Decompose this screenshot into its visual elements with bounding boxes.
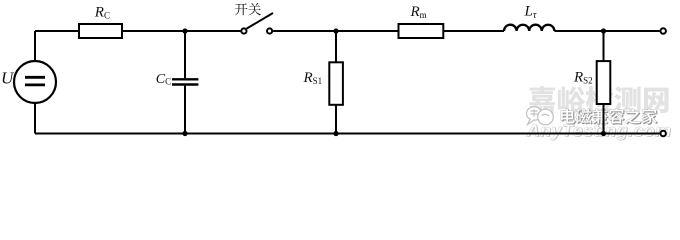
wire bottom	[35, 133, 660, 135]
capacitor C_C	[172, 79, 198, 84]
wire R_S1 branch	[335, 31, 337, 134]
switch lever	[247, 13, 273, 29]
svg-text:AnyTesting.com: AnyTesting.com	[526, 120, 672, 140]
resistor R_m	[399, 24, 444, 38]
watermark logo	[527, 107, 554, 125]
watermark text 电磁兼容之家	[561, 108, 657, 124]
wire capacitor branch	[184, 31, 186, 134]
resistor R_S2	[597, 61, 611, 104]
switch contact left	[241, 28, 246, 33]
voltage source U	[14, 61, 56, 103]
terminal bottom right	[661, 131, 666, 136]
label 开关	[235, 3, 261, 15]
wire top: inductor to output	[555, 30, 660, 32]
switch contact right	[267, 28, 272, 33]
junction RS1 top	[333, 28, 338, 33]
resistor R_S1	[329, 62, 343, 105]
wire top: source to R_C	[35, 30, 79, 32]
junction RS2 bottom	[601, 131, 606, 136]
junction cap top	[182, 28, 187, 33]
wire top: R_m to inductor	[443, 30, 504, 32]
resistor R_C	[79, 24, 122, 38]
svg-text:U: U	[1, 69, 15, 88]
watermark text 嘉峪检测网	[529, 86, 669, 114]
junction RS1 bottom	[333, 131, 338, 136]
junction cap bottom	[182, 131, 187, 136]
junction RS2 top	[601, 28, 606, 33]
inductor L_tau	[504, 25, 554, 31]
wire top: switch to R_m	[273, 30, 398, 32]
wire top: R_C to switch	[122, 30, 240, 32]
terminal top right	[661, 28, 666, 33]
wire R_S2 branch	[603, 31, 605, 134]
wire source leads	[34, 31, 36, 134]
watermark text 电磁兼容之家 shadow	[562, 109, 658, 125]
